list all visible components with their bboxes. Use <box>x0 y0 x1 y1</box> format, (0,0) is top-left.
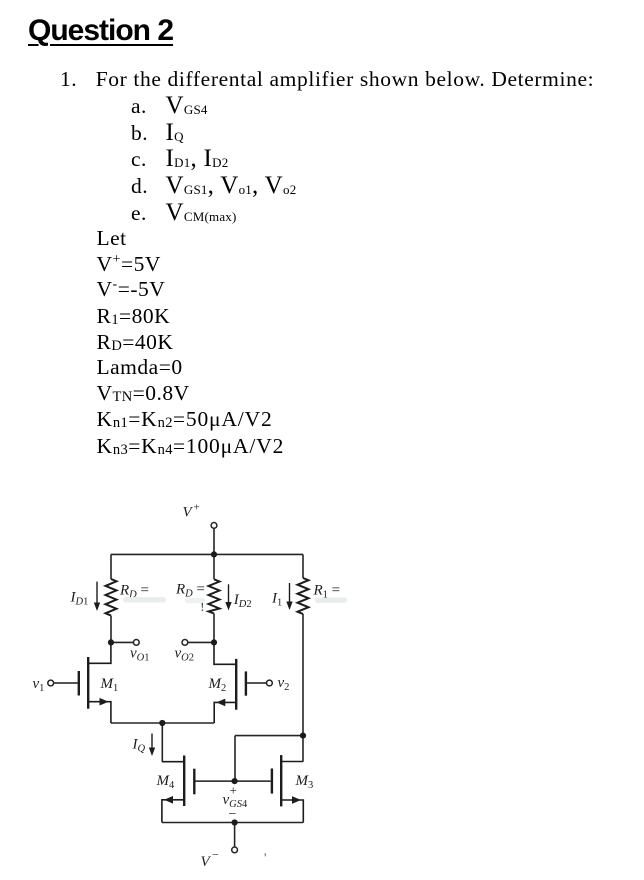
wire: middle branch lower <box>213 614 215 643</box>
node: vo2 junction <box>211 639 217 645</box>
M3 drain lead <box>281 761 303 763</box>
M3 source arrow <box>292 796 301 804</box>
svg-text:V: V <box>201 854 212 870</box>
M1 drain lead <box>88 642 111 663</box>
wire: IQ tail down <box>161 723 163 762</box>
wire: left branch lower <box>110 616 112 643</box>
terminal vo1 <box>133 640 139 646</box>
current arrow ID1 <box>94 582 100 611</box>
node: common source junction <box>159 720 165 726</box>
item b <box>131 123 148 145</box>
svg-text:ID1: ID1 <box>70 590 89 608</box>
M1 gate bar <box>78 671 80 696</box>
wire: vo2 stub <box>188 641 214 643</box>
artifact: erased value smudge left <box>123 597 166 603</box>
item a <box>131 96 147 118</box>
current arrow ID2 <box>225 584 231 610</box>
wire: right branch upper <box>302 554 304 578</box>
artifact: erased value smudge right <box>315 598 347 604</box>
node: top rail junction <box>211 551 217 557</box>
svg-text:+: + <box>230 783 237 798</box>
svg-text:+: + <box>194 502 200 514</box>
transistor M3 <box>272 755 303 822</box>
svg-text:V: V <box>183 505 194 521</box>
given data block <box>97 228 127 250</box>
M2 gate wire <box>247 682 267 684</box>
node: gate mirror junction <box>232 778 238 784</box>
svg-text:': ' <box>264 850 266 865</box>
wire: M4 gate tap vertical <box>234 736 236 782</box>
svg-text:M1: M1 <box>100 676 119 694</box>
node: vo1 junction <box>108 639 114 645</box>
node: R1/M3 drain junction <box>300 733 306 739</box>
node: bottom rail junction <box>232 819 238 825</box>
M2 source arrow <box>216 699 225 707</box>
M4 source lead <box>162 800 184 823</box>
svg-text:M2: M2 <box>208 676 227 694</box>
item c <box>131 149 147 171</box>
M3 source lead <box>281 800 303 823</box>
svg-text:v1: v1 <box>33 676 45 694</box>
M1 gate wire <box>54 682 78 684</box>
svg-text:−: − <box>212 848 219 862</box>
M4/M3 gate wire <box>196 780 271 782</box>
transistor M2 <box>214 642 267 723</box>
M3 gate bar <box>271 769 273 794</box>
resistor R1 right <box>298 578 309 614</box>
wire: middle branch upper <box>213 554 215 579</box>
resistor RD left <box>106 579 117 616</box>
wire: top rail <box>111 553 303 555</box>
transistor M1 <box>54 642 111 723</box>
M2 gate bar <box>245 671 247 695</box>
M2 drain lead <box>214 642 236 664</box>
terminal v1 <box>48 680 54 686</box>
M3 channel bar <box>280 755 282 806</box>
svg-text:−: − <box>229 807 237 822</box>
svg-text:IQ: IQ <box>132 737 146 755</box>
M4 drain lead <box>162 761 184 763</box>
terminal vo2 <box>182 640 188 646</box>
M1 source lead <box>88 702 111 723</box>
wire: left branch upper <box>110 554 112 579</box>
M1 source arrow <box>100 698 109 706</box>
artifact: erased value smudge middle <box>185 598 205 603</box>
wire: V+ stub <box>213 528 215 554</box>
transistor M4 <box>162 756 271 823</box>
wire: vo1 stub <box>111 641 133 643</box>
svg-text:vO2: vO2 <box>175 646 195 664</box>
svg-text:I1: I1 <box>271 591 282 609</box>
M4 source arrow <box>164 796 173 804</box>
item d <box>131 176 148 198</box>
wire: M4 gate tap horizontal <box>235 735 303 737</box>
resistor RD middle <box>209 579 220 613</box>
svg-text:vO1: vO1 <box>130 646 150 664</box>
svg-text:M3: M3 <box>295 773 314 791</box>
terminal V+ <box>211 523 217 529</box>
heading: Question 2 <box>28 16 173 46</box>
M4 channel bar <box>183 756 185 807</box>
wire: bottom rail <box>162 822 303 824</box>
terminal v2 <box>267 680 273 686</box>
current arrow IQ <box>149 734 155 757</box>
svg-text:RD =: RD = <box>175 582 205 600</box>
M2 source lead <box>214 702 236 723</box>
current arrow I1 <box>286 583 292 610</box>
svg-text:v2: v2 <box>278 675 290 693</box>
M2 channel bar <box>235 659 237 710</box>
wire: right branch (R1 bottom to M3 drain) <box>302 614 304 762</box>
M4 gate bar <box>193 769 195 795</box>
wire: common source rail <box>111 722 214 724</box>
M1 channel bar <box>87 657 89 709</box>
problem statement line 1 <box>60 69 77 91</box>
terminal V- <box>232 847 238 853</box>
item e <box>131 203 147 225</box>
wire: V- stub <box>234 823 236 848</box>
svg-text:ID2: ID2 <box>233 592 252 610</box>
svg-text:M4: M4 <box>156 773 176 791</box>
